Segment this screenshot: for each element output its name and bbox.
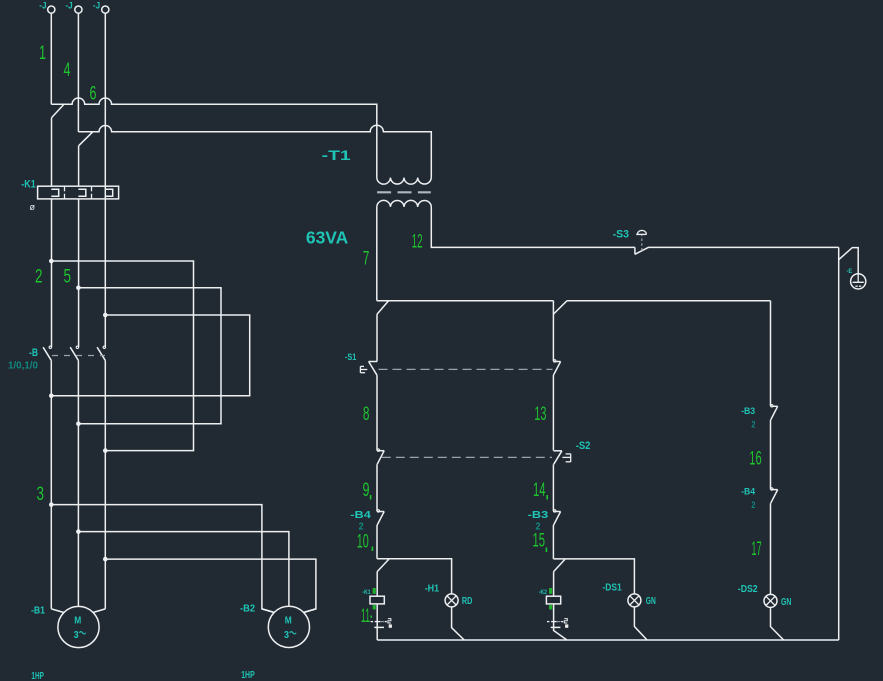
- switch -B linkage: [52, 355, 105, 357]
- wire left branch S2-B4: [376, 464, 378, 511]
- overload trip marks left: [371, 619, 392, 628]
- svg-text:7: 7: [363, 249, 370, 270]
- svg-text:2: 2: [751, 500, 755, 511]
- wire L3 upper: [104, 13, 106, 347]
- wire left branch to coil: [376, 572, 378, 597]
- svg-text:ø: ø: [30, 202, 36, 212]
- svg-text:3: 3: [284, 630, 289, 641]
- terminal -J L1: [39, 0, 55, 13]
- svg-text:-K2: -K2: [539, 590, 548, 596]
- wire mid branch to split: [552, 525, 554, 559]
- node 14 number: [533, 480, 548, 501]
- contact -B4 right: [771, 488, 778, 503]
- label -B2: [240, 603, 255, 615]
- label earth: [847, 269, 853, 275]
- svg-text:-H1: -H1: [425, 582, 440, 594]
- label -B3 right: [741, 406, 755, 417]
- coil K2 pin A1: [549, 588, 552, 594]
- wire L2 lower: [77, 360, 79, 606]
- switch -S1 pole 2: [553, 360, 560, 375]
- node 5 number: [64, 266, 72, 287]
- wire L1 lower: [50, 360, 52, 609]
- wire L1 K1 to B: [51, 199, 53, 347]
- label 1HP right: [241, 670, 255, 681]
- contactor K1 power contacts: [38, 186, 119, 199]
- label -B4 left: [350, 509, 371, 521]
- label -S2: [576, 440, 591, 452]
- svg-text:17: 17: [751, 539, 761, 560]
- label -B3 mid pin 2: [536, 522, 541, 533]
- svg-text:1/0,1/0: 1/0,1/0: [8, 361, 38, 372]
- node 11 number: [361, 606, 372, 627]
- motor B2 leads: [262, 609, 316, 613]
- svg-text:-J: -J: [65, 0, 72, 11]
- node 6 number: [90, 84, 97, 105]
- wire branch to lamp H1: [377, 559, 452, 594]
- label -S1: [345, 352, 357, 363]
- svg-text:-B2: -B2: [240, 603, 255, 615]
- svg-text:2: 2: [751, 419, 755, 430]
- label GN 2: [781, 596, 791, 608]
- svg-text:14: 14: [533, 480, 546, 501]
- coil K1 tiny label: [362, 590, 371, 596]
- svg-text:-B1: -B1: [31, 605, 45, 617]
- node 12 number: [412, 231, 423, 252]
- wire L2 mid: [78, 146, 80, 186]
- label 1HP left: [31, 671, 44, 681]
- svg-text:-B3: -B3: [528, 509, 549, 521]
- wire mid branch S2-B3: [552, 464, 554, 511]
- svg-text:2: 2: [35, 266, 43, 287]
- coil -K2: [546, 596, 560, 604]
- wire mid branch split diagonal: [554, 559, 565, 571]
- label -B1: [31, 605, 45, 617]
- wire right branch upper: [770, 301, 772, 406]
- wire lamp DS2 bottom: [771, 607, 784, 640]
- node 16 number: [749, 448, 761, 469]
- svg-text:-S2: -S2: [576, 440, 591, 452]
- wire lamp DS1 bottom: [634, 607, 647, 640]
- node 9 number: [363, 480, 372, 501]
- svg-text:10: 10: [357, 532, 369, 553]
- loop wire L1 top to L3 bottom: [49, 259, 194, 453]
- label -B4 right: [741, 486, 756, 497]
- wire left branch split diagonal: [377, 559, 389, 571]
- terminal -J L2: [65, 0, 82, 13]
- svg-text:RD: RD: [462, 595, 473, 607]
- wire L2 feeder to T1 primary (hops over L3 and T1 left lead): [78, 125, 431, 177]
- motor B1: [58, 606, 99, 647]
- switch S2 linkage: [382, 456, 552, 458]
- label -DS2: [738, 583, 758, 595]
- node 10 number: [357, 532, 373, 553]
- wire left branch upper: [376, 314, 378, 361]
- svg-text:-B4: -B4: [741, 486, 756, 497]
- control rail left segment: [377, 300, 554, 302]
- svg-text:-K1: -K1: [362, 590, 371, 596]
- wire mid branch coil to rail: [554, 604, 567, 640]
- svg-text:12: 12: [412, 231, 423, 252]
- switch -B poles: [43, 346, 105, 360]
- node 1 number: [39, 43, 46, 64]
- control rail right segment: [567, 300, 771, 302]
- svg-text:13: 13: [534, 404, 546, 425]
- svg-text:GN: GN: [781, 596, 791, 608]
- svg-text:-E: -E: [847, 269, 853, 275]
- svg-text:6: 6: [90, 84, 97, 105]
- symbol below K1: [30, 202, 36, 212]
- wire control mid branch diagonal: [554, 301, 567, 314]
- label -S3: [613, 229, 629, 241]
- node 4 number: [64, 60, 71, 81]
- node 8 number: [363, 404, 370, 425]
- wire mid branch S1-S2: [552, 375, 554, 451]
- label 63VA: [306, 227, 349, 247]
- loop wire L2 top to L2 bottom: [76, 286, 221, 427]
- switch -S3 contact: [635, 247, 649, 254]
- svg-text:8: 8: [363, 404, 370, 425]
- label -T1: [322, 147, 351, 163]
- branch wire to motor B2 left: [49, 502, 274, 612]
- label -B4 left pin 2: [359, 522, 364, 533]
- svg-text:-S1: -S1: [345, 352, 357, 363]
- svg-text:1: 1: [39, 43, 46, 64]
- svg-text:3: 3: [74, 630, 79, 641]
- label RD: [462, 595, 473, 607]
- svg-text:-K1: -K1: [21, 178, 36, 190]
- switch S1 linkage: [379, 368, 553, 370]
- svg-text:-B4: -B4: [350, 509, 371, 521]
- switch -S1 pole 1: [360, 362, 377, 376]
- wire L1 feeder to T1 primary (hops over L2,L3): [51, 98, 377, 178]
- loop wire L3 top to L1 bottom: [49, 313, 250, 398]
- switch -S2 pole 2 (left): [377, 449, 384, 464]
- label -B: [29, 347, 38, 359]
- branch wire to motor B2 right: [103, 557, 316, 613]
- node 7 number: [363, 249, 370, 270]
- label -H1: [425, 582, 440, 594]
- coil K2 tiny label: [539, 590, 548, 596]
- node 3 number: [37, 484, 45, 505]
- node 17 number: [751, 539, 761, 560]
- transformer T1 primary winding: [377, 178, 432, 185]
- earth tap wire: [839, 248, 859, 274]
- node 13 number: [534, 404, 546, 425]
- label -DS1: [602, 582, 621, 594]
- svg-text:-B: -B: [29, 347, 38, 359]
- label -B3 right pin 2: [751, 419, 755, 430]
- svg-text:11: 11: [361, 606, 370, 627]
- switch -S3 actuator: [636, 230, 646, 250]
- wire mid branch upper: [552, 301, 554, 361]
- wire left branch coil to rail: [376, 604, 378, 640]
- svg-text:1HP: 1HP: [241, 670, 255, 681]
- motor B2: [268, 606, 309, 647]
- wire L3 lower: [104, 360, 106, 609]
- wire return right vertical: [838, 247, 840, 640]
- wire junction diagonal L2: [79, 132, 93, 146]
- svg-text:3: 3: [37, 484, 45, 505]
- contact -B3 mid: [553, 510, 560, 525]
- lamp -DS2: [764, 594, 777, 607]
- svg-text:M: M: [74, 615, 81, 626]
- svg-text:9: 9: [363, 480, 370, 501]
- wire L1 upper: [50, 13, 52, 104]
- wire L1 mid: [51, 118, 53, 186]
- label -K1: [21, 178, 36, 190]
- label -B3 mid: [528, 509, 549, 521]
- label -B4 right pin 2: [751, 500, 755, 511]
- svg-text:GN: GN: [646, 595, 656, 607]
- svg-text:-J: -J: [39, 0, 46, 11]
- branch wire to motor B2 middle: [76, 529, 289, 606]
- wire control branch left diagonal: [377, 301, 389, 315]
- overload trip marks mid: [547, 619, 568, 628]
- coil K1 pin A2: [373, 605, 376, 610]
- coil K1 pin A1: [373, 588, 376, 594]
- node 15 number: [533, 531, 548, 552]
- svg-text:-DS1: -DS1: [602, 582, 621, 594]
- control bottom rail: [377, 639, 839, 641]
- svg-text:15: 15: [533, 531, 546, 552]
- lamp -H1: [445, 594, 458, 607]
- wire right branch mid: [770, 420, 772, 489]
- motor B1 leads: [51, 609, 105, 613]
- wire junction diagonal L1: [52, 104, 65, 118]
- svg-text:-S3: -S3: [613, 229, 629, 241]
- wire mid branch to coil: [553, 572, 555, 597]
- switch -S2 main pole: [554, 451, 571, 465]
- label GN 1: [646, 595, 656, 607]
- svg-text:5: 5: [64, 266, 72, 287]
- svg-text:-DS2: -DS2: [738, 583, 758, 595]
- contact -B4 left: [377, 510, 384, 525]
- wire T1 secondary left lead: [376, 207, 378, 301]
- node 2 number: [35, 266, 43, 287]
- wire L2 upper: [77, 13, 79, 132]
- contact -B3 right: [771, 405, 778, 420]
- svg-text:-J: -J: [93, 1, 100, 12]
- wire T1 secondary right lead: [431, 207, 635, 248]
- svg-text:-T1: -T1: [322, 147, 351, 163]
- lamp -DS1: [628, 594, 641, 607]
- svg-text:63VA: 63VA: [306, 227, 349, 247]
- svg-text:16: 16: [749, 448, 761, 469]
- coil -K1: [370, 596, 384, 604]
- wire left branch to split: [376, 525, 378, 559]
- transformer T1 core: [377, 191, 431, 193]
- wire lamp H1 bottom: [452, 607, 465, 640]
- wire S3 to right corner: [648, 246, 838, 248]
- svg-text:1HP: 1HP: [31, 671, 44, 681]
- wire branch to lamp DS1: [553, 559, 634, 594]
- terminal -J L3: [93, 1, 109, 14]
- wire L2 K1 to B: [78, 199, 80, 347]
- wire left branch S1-S2: [376, 375, 378, 450]
- coil K2 pin A2: [549, 605, 552, 610]
- wire right branch to lamp: [770, 503, 772, 594]
- svg-text:M: M: [285, 615, 292, 626]
- transformer T1 secondary winding: [377, 200, 432, 207]
- svg-text:4: 4: [64, 60, 71, 81]
- svg-text:-B3: -B3: [741, 406, 755, 417]
- earth electrode symbol: [851, 274, 866, 289]
- label 1/0,1/0: [8, 361, 38, 372]
